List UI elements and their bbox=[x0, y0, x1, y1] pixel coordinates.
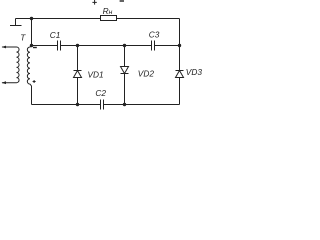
svg-text:C2: C2 bbox=[95, 88, 106, 98]
svg-text:C1: C1 bbox=[50, 30, 61, 40]
svg-text:C3: C3 bbox=[149, 30, 160, 40]
svg-text:VD2: VD2 bbox=[138, 68, 155, 78]
svg-text:VD3: VD3 bbox=[186, 67, 203, 77]
svg-text:VD1: VD1 bbox=[88, 69, 104, 79]
